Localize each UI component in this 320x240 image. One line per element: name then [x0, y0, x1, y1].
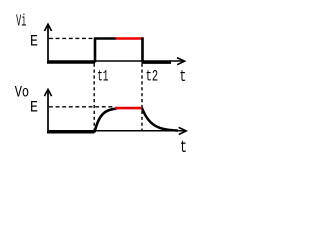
svg-text:E: E	[30, 32, 38, 50]
dashed E level (bottom)	[49, 106, 114, 108]
node t1 dashed vertical	[93, 64, 95, 131]
wire Vo waveform 0-level before t1	[47, 131, 95, 134]
svg-text:t: t	[179, 68, 186, 87]
axis t (top) horizontal	[48, 60, 185, 62]
svg-text:t: t	[180, 138, 187, 158]
wire Vi waveform 0-level before t1	[47, 61, 95, 64]
wire Vi falling edge at t2	[141, 39, 143, 63]
wire Vi waveform 0-level after t2	[142, 61, 172, 64]
node t2 dashed vertical	[141, 64, 143, 131]
axis Vo vertical	[47, 91, 49, 132]
wire Vo saturated red segment at E	[115, 107, 141, 110]
svg-text:E: E	[30, 98, 38, 116]
arrowhead t axis (top)	[177, 58, 185, 65]
arrowhead t axis (bottom)	[179, 127, 187, 134]
wire Vi pulse top red part	[116, 37, 142, 40]
arrowhead Vo axis	[44, 89, 51, 96]
wire Vo discharging curve after t2	[142, 108, 178, 130]
svg-text:Vo: Vo	[15, 83, 29, 101]
wire Vo charging curve after t1	[95, 109, 117, 133]
wire Vi rising edge at t1	[94, 39, 97, 63]
axis t (bottom) horizontal	[48, 130, 186, 132]
wire Vi pulse top black part	[94, 37, 116, 40]
svg-text:t2: t2	[146, 68, 159, 86]
dashed E level (top)	[49, 37, 94, 39]
svg-text:t1: t1	[97, 68, 108, 86]
axis Vi vertical	[47, 25, 49, 62]
svg-text:Vi: Vi	[16, 12, 26, 31]
arrowhead Vi axis	[44, 24, 51, 31]
